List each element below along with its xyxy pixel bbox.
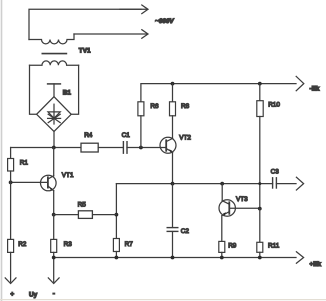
capacitor C2: [167, 228, 178, 232]
wire R6 bottom: [140, 116, 142, 148]
resistor R7: [113, 239, 119, 252]
svg-text:B1: B1: [63, 90, 72, 97]
node column crossing: [258, 182, 261, 185]
svg-text:+: +: [10, 291, 14, 298]
wire C2 top lead: [172, 184, 174, 228]
resistor R4: [81, 143, 98, 152]
capacitor C3: [273, 178, 277, 188]
wire R11 bottom lead: [259, 252, 261, 257]
bridge rectifier B1 diamond: [37, 97, 72, 132]
wire bridge output: [53, 132, 55, 148]
transistor VT1: [41, 175, 57, 191]
left page border: [1, 0, 3, 301]
resistor R9: [219, 241, 225, 252]
capacitor C1: [123, 142, 127, 154]
node bridge-R4 junction: [52, 146, 56, 150]
svg-text:VT2: VT2: [179, 134, 191, 141]
wire emitter row: [116, 183, 272, 185]
terminal arrow Uy plus: [5, 252, 16, 283]
svg-text:Uy: Uy: [29, 291, 38, 298]
resistor R11: [257, 242, 263, 252]
wire main node row: [11, 147, 81, 149]
svg-text:R9: R9: [228, 243, 237, 250]
wire secondary right drop: [71, 65, 78, 114]
wire primary lower: [74, 33, 147, 35]
wire VT1 collector up: [53, 148, 55, 176]
svg-text:TV1: TV1: [79, 48, 91, 55]
wire top bus: [141, 84, 296, 102]
svg-text:R8: R8: [181, 103, 190, 110]
svg-text:R7: R7: [125, 241, 134, 248]
resistor R2: [8, 239, 14, 252]
transformer TV1 primary winding: [29, 34, 74, 44]
bottom page border: [0, 299, 326, 301]
wire R1 to base node: [10, 171, 12, 182]
resistor R6: [138, 102, 144, 116]
node R5 right junction: [115, 213, 119, 217]
resistor R10: [257, 101, 263, 117]
svg-text:C2: C2: [181, 228, 190, 235]
node R10 top junction: [258, 82, 262, 86]
resistor R5: [78, 211, 92, 219]
wire R11 top lead: [259, 209, 261, 243]
node VT3 base junction: [220, 182, 224, 186]
transistor VT2: [160, 137, 176, 153]
wire R5 row: [54, 214, 117, 216]
svg-text:R11: R11: [268, 243, 280, 250]
wire secondary left drop: [30, 65, 37, 114]
wire R3 column: [53, 215, 55, 240]
wire R9 bottom lead: [221, 252, 223, 257]
wire C1 to VT2 base: [127, 147, 166, 149]
svg-text:-: -: [53, 291, 55, 298]
terminal arrow Uy minus: [48, 252, 59, 283]
wire R4 to C1: [98, 147, 123, 149]
terminal arrow -Ek: [296, 76, 304, 90]
wire R8 to VT2 collector: [172, 116, 174, 138]
terminal arrow +Ek: [296, 252, 303, 263]
wire primary top: [29, 9, 141, 39]
wire VT3 collector up: [221, 184, 223, 201]
wire R7 bottom lead: [115, 252, 117, 258]
wire VT3 base lead: [229, 207, 259, 209]
node R11 bottom junction: [258, 256, 262, 260]
node VT3 base column junction: [258, 207, 262, 211]
terminal arrow output: [296, 177, 303, 190]
svg-text:R3: R3: [64, 241, 73, 248]
svg-text:C1: C1: [122, 132, 131, 139]
svg-text:R5: R5: [78, 201, 87, 208]
transformer core: [42, 53, 66, 55]
terminal arrow top: [120, 5, 148, 14]
transformer TV1 secondary winding: [30, 61, 79, 65]
terminal arrow lower: [142, 30, 148, 39]
node R3 bottom junction: [52, 256, 56, 260]
node VT1 emitter junction: [52, 213, 56, 217]
node C2 bottom junction: [171, 256, 175, 260]
resistor R8: [170, 102, 176, 116]
wire VT3 emitter down: [221, 216, 223, 242]
wire VT1 emitter down: [53, 191, 55, 215]
node R9 bottom junction: [220, 256, 224, 260]
svg-text:R4: R4: [84, 132, 93, 139]
node VT2 emitter junction: [171, 182, 175, 186]
wire VT2 emitter down: [172, 153, 174, 184]
svg-text:VT3: VT3: [236, 196, 248, 203]
svg-text:R6: R6: [150, 103, 159, 110]
resistor R1: [8, 159, 14, 172]
wire C3 output: [276, 183, 296, 185]
svg-text:-Ek: -Ek: [310, 85, 320, 92]
bridge top terminal: [48, 84, 61, 97]
svg-text:R2: R2: [18, 241, 27, 248]
bridge diode symbol: [48, 104, 61, 124]
wire VT1 base: [11, 181, 48, 183]
wire R7 drop: [115, 184, 117, 239]
svg-text:R10: R10: [268, 102, 280, 109]
svg-text:+Ek: +Ek: [310, 261, 322, 268]
transistor VT3: [219, 200, 235, 216]
node R8 top junction: [171, 82, 175, 86]
svg-text:~660V: ~660V: [155, 18, 174, 25]
wire R2 column: [10, 182, 12, 239]
node R6 bottom junction: [139, 146, 143, 150]
wire bottom bus: [54, 257, 296, 259]
wire R10 down column: [259, 117, 261, 209]
wire C2 bottom lead: [172, 232, 174, 258]
node R7 bottom junction: [115, 256, 119, 260]
wire R10 top lead: [259, 84, 261, 101]
resistor R3: [51, 239, 57, 252]
svg-text:C3: C3: [271, 168, 280, 175]
svg-text:VT1: VT1: [62, 172, 74, 179]
wire R1 top lead: [10, 148, 12, 159]
node R1 bottom junction: [9, 181, 13, 185]
wire R8 top lead: [172, 84, 174, 102]
svg-text:R1: R1: [20, 159, 29, 166]
